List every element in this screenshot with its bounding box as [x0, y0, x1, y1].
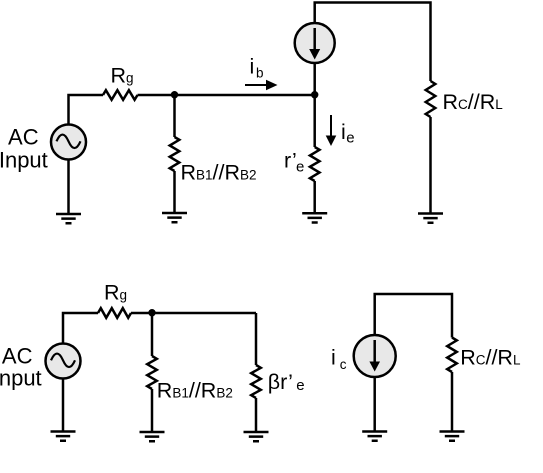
ground under r'e	[302, 213, 327, 222]
wire beta-r'e to ground	[255, 398, 258, 432]
svg-text:RB1//RB2: RB1//RB2	[181, 161, 257, 185]
svg-text:i: i	[341, 120, 346, 144]
wire RB1//RB2 to ground	[173, 171, 176, 213]
node C dot	[311, 91, 318, 98]
resistor beta-r'e	[251, 365, 261, 398]
svg-text:e: e	[346, 130, 354, 147]
AC source V2	[46, 344, 81, 379]
ground under RB1//RB2 (top)	[162, 213, 187, 222]
ground under V1	[56, 214, 81, 223]
resistor RB1//RB2 (bottom)	[147, 356, 157, 389]
resistor RC//RL (bottom)	[447, 338, 457, 373]
svg-text:RB1//RB2: RB1//RB2	[157, 378, 233, 402]
wire U1 bottom to node C	[313, 63, 316, 95]
wire RB1//RB2 to ground (bottom)	[151, 389, 154, 432]
wire RC//RL to ground (bottom)	[451, 372, 454, 432]
svg-text:AC: AC	[8, 125, 39, 150]
wire U2 to ground	[373, 377, 376, 432]
arrow inside U1	[313, 28, 316, 50]
wire V1 to ground	[67, 160, 70, 215]
ground under beta-r'e	[244, 432, 269, 441]
current arrow ie	[330, 115, 332, 136]
wire node C to r'e	[313, 95, 316, 147]
current source U1	[295, 23, 335, 63]
wire current source U2 to RC//RL (bottom)	[375, 294, 452, 338]
svg-text:Input: Input	[0, 148, 48, 173]
ground under RC//RL (top)	[418, 214, 443, 223]
AC source V1	[51, 125, 86, 160]
svg-text:i: i	[331, 345, 336, 369]
ground under V2	[51, 432, 76, 441]
current source U2	[354, 335, 396, 377]
current arrow ib	[245, 84, 267, 86]
arrow inside U2	[373, 340, 376, 362]
ground under U2	[362, 432, 387, 441]
resistor RC//RL (top)	[426, 81, 436, 117]
resistor RB1//RB2 (top)	[170, 137, 180, 171]
wire RC//RL to ground (top)	[429, 117, 432, 214]
wire U1 top to RC//RL top	[315, 3, 431, 82]
svg-text:e: e	[296, 159, 304, 176]
wire node D wire to beta-r'e	[255, 313, 258, 365]
wire node B to RB1//RB2	[173, 95, 176, 137]
sine symbol V1	[57, 135, 81, 149]
svg-text:Rg: Rg	[111, 64, 134, 88]
svg-text:b: b	[256, 66, 264, 81]
resistor r'e	[310, 147, 320, 181]
svg-text:RC//RL: RC//RL	[443, 90, 504, 114]
svg-text:Input: Input	[0, 366, 42, 391]
wire r'e to ground	[313, 181, 316, 213]
resistor Rg (bottom)	[98, 308, 131, 318]
svg-text:Rg: Rg	[104, 280, 127, 304]
wire V2 to ground	[62, 379, 65, 432]
svg-text:RC//RL: RC//RL	[460, 345, 521, 369]
svg-text:βr’: βr’	[268, 370, 293, 394]
sine symbol V2	[51, 354, 75, 368]
svg-text:r’: r’	[284, 149, 297, 173]
wire Rg to node B (top)	[138, 94, 315, 97]
node B dot	[171, 91, 178, 98]
node D dot	[148, 309, 155, 316]
ground under RB1//RB2 (bottom)	[140, 432, 165, 441]
svg-text:c: c	[340, 357, 347, 372]
ground under RC//RL (bottom)	[440, 432, 465, 441]
wire top-left corner to Rg (top circuit)	[69, 95, 104, 125]
svg-text:e: e	[296, 377, 304, 394]
wire Rg to beta-r'e (bottom)	[131, 312, 256, 315]
resistor Rg (top)	[103, 90, 138, 100]
svg-text:i: i	[250, 54, 255, 78]
wire node D to RB1//RB2 (bottom)	[151, 313, 154, 356]
wire top-left corner to Rg (bottom circuit)	[63, 313, 98, 344]
